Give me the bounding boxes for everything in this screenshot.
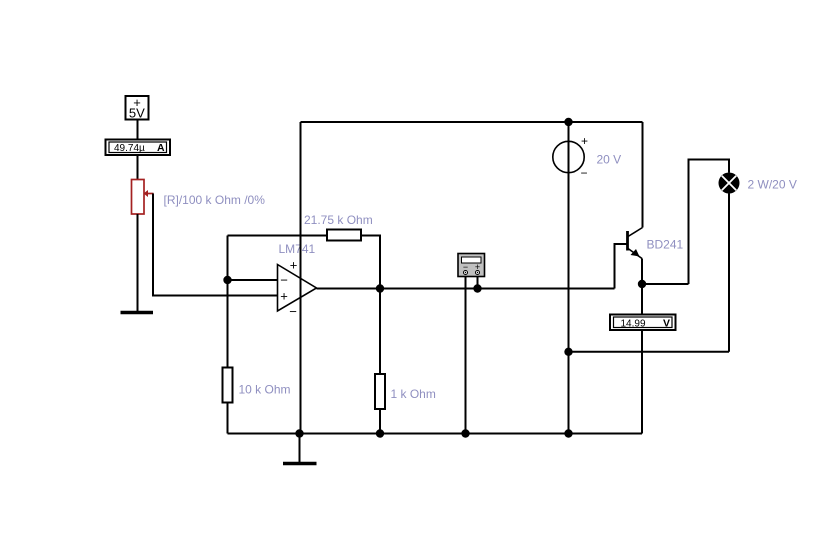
wire 1k to bottom rail (379, 409, 381, 434)
voltmeter 14.99V (610, 315, 676, 331)
ground middle (283, 462, 317, 466)
probe P1 (458, 254, 485, 277)
resistor 10 k Ohm (223, 368, 233, 403)
junction 1k bottom (376, 429, 384, 437)
wire top rail (301, 121, 643, 123)
wire 20V source vertical (568, 122, 570, 434)
wire feedback right and down to output (361, 236, 380, 289)
junction 20V bottom node (564, 348, 572, 356)
svg-text:BD241: BD241 (647, 238, 684, 252)
wire voltmeter to bottom rail (641, 330, 643, 434)
svg-text:LM741: LM741 (279, 242, 316, 256)
junction ground tap (295, 429, 303, 437)
junction probe plus node (473, 284, 481, 292)
battery V1 5V (126, 95, 149, 121)
svg-text:14.99: 14.99 (621, 318, 646, 329)
wire inverting node to op-amp (228, 279, 278, 281)
source V2 20V (553, 134, 588, 180)
lamp 2W/20V (719, 173, 740, 194)
svg-text:A: A (157, 142, 165, 154)
svg-text:21.75 k Ohm: 21.75 k Ohm (304, 213, 373, 227)
potentiometer R 100k (132, 180, 154, 215)
wire ground stub middle (299, 434, 301, 463)
wire feedback horizontal left (228, 235, 328, 237)
wire inverting node vertical (227, 236, 229, 368)
wire bottom rail (228, 433, 643, 435)
wire collector to top rail (642, 122, 644, 228)
junction inverting node (223, 276, 231, 284)
svg-text:10 k Ohm: 10 k Ohm (239, 383, 291, 397)
svg-text:1 k Ohm: 1 k Ohm (391, 387, 436, 401)
wire lamp top (689, 160, 730, 285)
resistor 1 k Ohm (375, 374, 385, 409)
resistor 21.75 k Ohm (327, 230, 361, 241)
junction probe minus bottom (461, 429, 469, 437)
wire emitter down (641, 259, 643, 315)
svg-text:20 V: 20 V (597, 153, 622, 167)
wire battery to ammeter (137, 120, 139, 141)
svg-text:+: + (581, 134, 588, 148)
junction 20V top rail (564, 118, 572, 126)
ammeter 49.74µA (106, 140, 171, 156)
junction emitter node (638, 280, 646, 288)
svg-text:−: − (580, 166, 587, 180)
svg-text:−: − (280, 273, 288, 288)
wire op-amp output (317, 288, 615, 290)
op-amp U1 LM741 (278, 258, 317, 320)
wire lamp bottom vertical (728, 194, 730, 352)
wire lamp return horizontal (569, 351, 730, 353)
wire output node down to 1k (379, 289, 381, 375)
transistor Q1 BD241 (628, 228, 643, 259)
wire wiper to op-amp non-inverting input (153, 194, 278, 296)
wire op-amp power vertical (300, 122, 302, 434)
svg-text:+: + (280, 289, 288, 304)
svg-text:[R]/100 k Ohm /0%: [R]/100 k Ohm /0% (164, 193, 266, 207)
svg-text:−: − (289, 304, 297, 319)
junction output node (376, 284, 384, 292)
wire 10k to bottom rail (227, 403, 229, 434)
wire probe plus to output (477, 277, 479, 289)
wire probe minus to bottom rail (465, 277, 467, 434)
wire base from output (615, 244, 627, 289)
svg-text:49.74µ: 49.74µ (114, 143, 145, 154)
wire potentiometer to ground (137, 214, 139, 312)
svg-text:V: V (663, 317, 670, 329)
wire ammeter to potentiometer (137, 155, 139, 180)
ground left (121, 311, 154, 315)
junction 20V bottom rail (564, 429, 572, 437)
svg-text:2 W/20 V: 2 W/20 V (748, 178, 797, 192)
wire emitter node to lamp branch (642, 283, 689, 285)
svg-text:5V: 5V (129, 106, 145, 121)
svg-text:+: + (290, 258, 298, 273)
